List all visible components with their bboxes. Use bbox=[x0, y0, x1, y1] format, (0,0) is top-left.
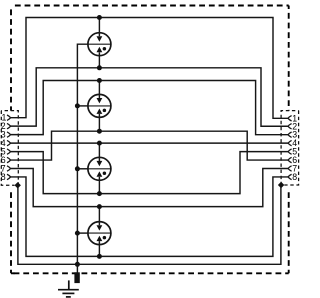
terminal contact 7' bbox=[288, 166, 292, 171]
terminal contact 6' bbox=[288, 157, 292, 162]
junction node A7 bbox=[97, 204, 102, 209]
terminal contact 8 bbox=[7, 174, 11, 179]
junction node A8 bbox=[97, 254, 102, 259]
earth contact diamond left bbox=[15, 182, 21, 188]
wire terminal 2 to rail 2 to node A2 bbox=[10, 68, 99, 126]
terminal contact 3 bbox=[7, 132, 11, 137]
junction node A6 bbox=[97, 191, 102, 196]
earth terminal block (solid bar) bbox=[74, 272, 79, 283]
terminal contact 2 bbox=[7, 123, 11, 128]
earth contact diamond right bbox=[278, 182, 284, 188]
ground symbol bbox=[58, 280, 79, 297]
wire node A6 to terminal 5' bbox=[99, 152, 288, 194]
wire node A1 to terminal 1' bbox=[99, 18, 288, 119]
wire terminal 8 to rail 8 to node A8 bbox=[10, 177, 99, 256]
terminal contact 3' bbox=[288, 132, 292, 137]
svg-text:8: 8 bbox=[1, 172, 6, 182]
enclosure dashed border (protective device housing) bbox=[11, 6, 289, 274]
wire node A4 to terminal 6' bbox=[99, 131, 288, 160]
terminal contact 6 bbox=[7, 157, 11, 162]
gas discharge tube F1 bbox=[88, 18, 111, 68]
junction node A5 bbox=[97, 141, 102, 146]
wire node A8 to terminal 8' bbox=[99, 177, 288, 256]
gas discharge tube F3 bbox=[88, 143, 111, 194]
junction node A3 bbox=[97, 78, 102, 83]
terminal contact 7 bbox=[7, 166, 11, 171]
gas discharge tube F4 bbox=[88, 207, 111, 257]
left terminal block X1 dashed box bbox=[1, 111, 18, 186]
wire terminal 5 to rail 6 to node A6 bbox=[10, 152, 99, 194]
wire node A7 to terminal 7' bbox=[99, 169, 288, 207]
wire terminal 7 to rail 7 to node A7 bbox=[10, 169, 99, 207]
terminal contact 4 bbox=[7, 140, 11, 145]
gas discharge tube F2 bbox=[88, 81, 111, 132]
terminal contact 1 bbox=[7, 115, 11, 120]
junction node A4 bbox=[97, 129, 102, 134]
terminal contact 8' bbox=[288, 174, 292, 179]
wire node A2 to terminal 2' bbox=[99, 68, 288, 126]
junction earth line to earth bus bbox=[75, 262, 80, 267]
terminal contact 2' bbox=[288, 124, 292, 129]
junction node A1 bbox=[97, 15, 102, 20]
wire node A3 to terminal 3' bbox=[99, 81, 288, 135]
wire terminal 1 to rail 1 to node A1 bbox=[10, 18, 99, 118]
earth electrode drop wire bbox=[76, 264, 78, 272]
terminal contact 5' bbox=[288, 149, 292, 154]
wire terminal 6 to rail 4 to node A4 bbox=[10, 131, 99, 160]
junction F2 centre on earth line bbox=[75, 103, 80, 108]
terminal contact 5 bbox=[7, 149, 11, 154]
earth bus wire: left block contact down, across bottom, up to right block contact bbox=[18, 185, 281, 264]
wire F1 centre electrode to earth line bbox=[77, 44, 88, 264]
right terminal block X2 dashed box bbox=[281, 111, 299, 185]
wire terminal 4 through node A5 to terminal 4' bbox=[10, 142, 288, 144]
terminal contact 1' bbox=[288, 116, 292, 121]
wire F2 centre electrode stub bbox=[77, 105, 88, 107]
junction F4 centre on earth line bbox=[75, 231, 80, 236]
wire F3 centre electrode stub bbox=[77, 168, 88, 170]
wire terminal 3 to rail 3 to node A3 bbox=[10, 81, 99, 135]
junction F3 centre on earth line bbox=[75, 166, 80, 171]
svg-text:8: 8 bbox=[292, 172, 297, 182]
junction node A2 bbox=[97, 65, 102, 70]
wire F4 centre electrode stub bbox=[77, 232, 88, 234]
terminal contact 4' bbox=[288, 140, 292, 145]
